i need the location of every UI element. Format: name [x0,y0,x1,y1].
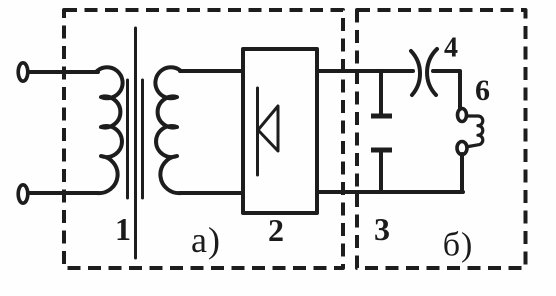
capacitor C bottom lead [379,152,383,192]
capacitor C bottom plate [371,148,392,153]
svg-text:а): а) [191,220,221,260]
diode symbol bar inside block 2 [256,88,259,175]
wire secondary top to block 2 [180,69,243,73]
input terminal bottom [18,185,28,203]
spark gap 4 right electrode [427,49,437,95]
spark gap 4 left electrode [411,51,420,95]
transformer core line right [141,80,144,198]
wire bottom-left input [29,191,98,195]
capacitor C top plate [371,114,392,119]
svg-text:1: 1 [115,211,131,247]
transformer core line left [126,80,129,198]
svg-text:4: 4 [444,33,458,64]
transformer shield line (long) [134,28,137,258]
input terminal top [18,63,28,81]
discharge element 6 coil [468,116,483,147]
wire spark gap to corner [433,71,460,109]
wire secondary bottom to block 2 [180,191,243,195]
dashed box b) [357,10,526,268]
block 2 rectangle [243,49,317,213]
wire block 2 to node top [317,69,413,73]
svg-text:б): б) [443,227,474,264]
transformer T secondary winding [155,67,181,193]
svg-text:6: 6 [475,74,490,107]
transformer T primary winding [97,67,123,193]
diode symbol triangle inside block 2 [258,106,278,151]
discharge element 6 bottom electrode [457,142,467,155]
wire top-left input [29,70,98,74]
wire block 2 to node bottom [317,190,463,194]
wire element 6 to bottom wire [460,154,464,192]
discharge element 6 top electrode [458,109,467,122]
svg-text:2: 2 [268,212,284,248]
dashed box a) [64,10,343,268]
capacitor C top lead [379,71,383,114]
svg-text:3: 3 [374,211,390,247]
